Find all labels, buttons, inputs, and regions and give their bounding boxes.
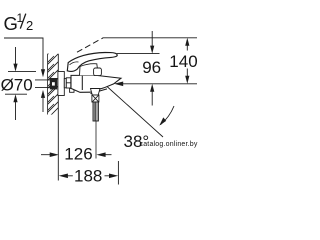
diverter knob [91, 89, 101, 96]
188 left arrow (points left) [59, 174, 68, 179]
140 bottom arrow (down) [185, 76, 189, 84]
top line (raised lever) y=37.8 [103, 37, 198, 39]
Ø70 dim arrows [15, 47, 17, 120]
svg-text:catalog.onliner.by: catalog.onliner.by [140, 141, 198, 148]
96 bottom arrow (up) [150, 84, 154, 92]
flange (escutcheon) [58, 72, 64, 96]
svg-text:1: 1 [17, 11, 24, 25]
svg-text:70: 70 [14, 76, 33, 95]
body ring line [81, 75, 83, 90]
126 left arrow (points right) [50, 152, 59, 157]
pipe in-wall dark block [50, 78, 57, 89]
G 1/2 leader [4, 38, 43, 70]
under-body small part [70, 88, 74, 92]
38 degree arc [161, 106, 175, 125]
wall hatch [40, 40, 66, 122]
140 dim vertical [186, 44, 188, 77]
ribbed hose [93, 102, 98, 121]
188 right arrow (points right) [109, 174, 118, 179]
lever handle [67, 53, 117, 72]
G 1/2 fraction slash [20, 14, 26, 29]
svg-text:96: 96 [142, 58, 161, 77]
96 top arrow (down) [150, 46, 154, 54]
lever top line y=53.6 [117, 53, 160, 55]
hose connector [92, 95, 99, 102]
G1/2 up arrow [41, 90, 45, 98]
96 dim verticals [151, 31, 153, 106]
svg-text:2: 2 [26, 18, 33, 33]
spout inner bottom line [91, 89, 108, 94]
wall left edge [47, 54, 49, 115]
126 dim [41, 154, 112, 156]
cartridge cap under lever [80, 64, 99, 76]
svg-text:Ø: Ø [1, 76, 14, 95]
button [94, 68, 102, 76]
neck [64, 79, 66, 88]
body + spout outline [71, 75, 121, 93]
arrowheads [13, 38, 189, 178]
spout axis left arrow [114, 82, 123, 87]
wall face line + extension to 188 row [57, 54, 59, 181]
126 right arrow (points left) [96, 152, 105, 157]
Ø70 extension lines [5, 72, 36, 95]
lever raised (dashed) [77, 38, 103, 52]
hose end / 126 extension line [95, 121, 97, 159]
hex nut [66, 78, 71, 88]
axis line y=83.8 [121, 83, 197, 85]
Ø70 bottom arrow (up) [13, 94, 17, 102]
G1/2 down arrow [41, 69, 45, 77]
svg-text:188: 188 [74, 167, 102, 186]
svg-text:126: 126 [64, 145, 92, 164]
38 arc arrowhead [159, 117, 166, 125]
188 right extension [117, 161, 119, 185]
38 degree stream line [107, 87, 163, 138]
supply pipe stub [35, 80, 50, 88]
140 top arrow (up) [185, 38, 189, 46]
Ø70 top arrow (down) [13, 64, 17, 72]
svg-text:140: 140 [169, 52, 197, 71]
188 dim [68, 175, 111, 177]
